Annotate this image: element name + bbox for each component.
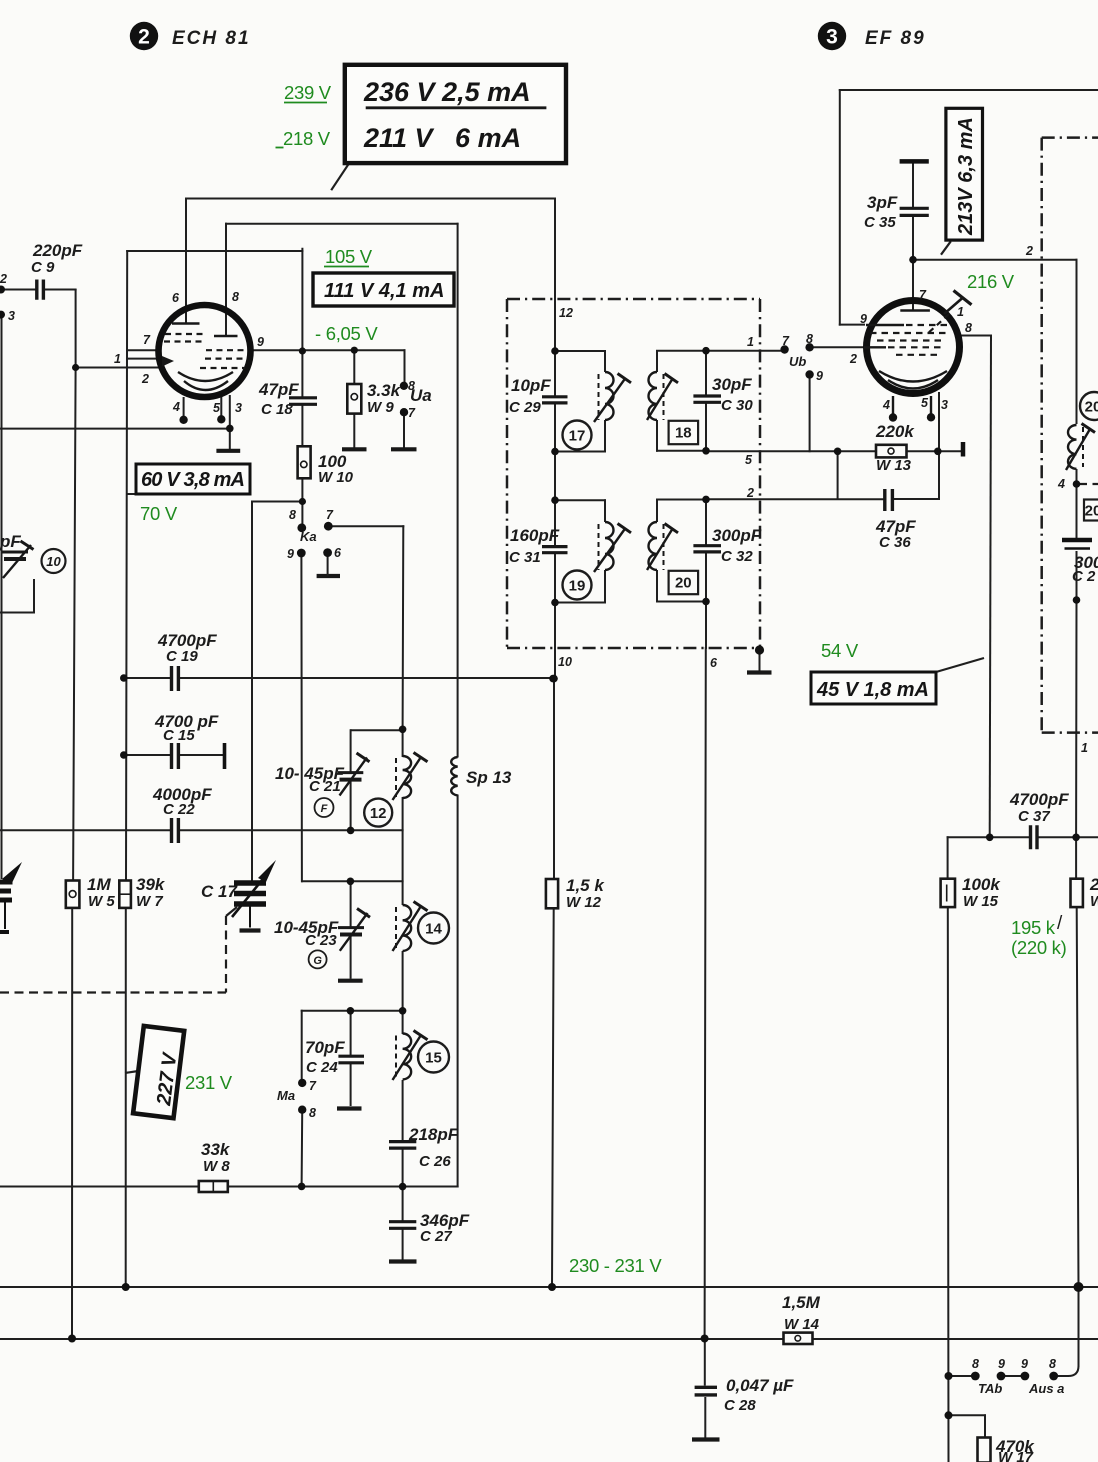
svg-text:C 18: C 18 [261,401,293,418]
svg-text:W 15: W 15 [963,893,999,910]
svg-text:W 10: W 10 [318,469,354,486]
svg-text:211 V 6 mA: 211 V 6 mA [363,123,521,153]
svg-text:5: 5 [745,453,753,467]
svg-text:0,047 µF: 0,047 µF [726,1376,794,1395]
svg-text:C 21: C 21 [309,778,341,795]
svg-text:C 19: C 19 [166,648,198,665]
svg-text:239 V: 239 V [284,82,332,103]
svg-text:70 V: 70 V [140,503,178,524]
svg-text:8: 8 [965,321,972,335]
svg-text:7: 7 [782,334,790,348]
svg-text:/: / [1057,913,1063,934]
svg-text:2: 2 [141,372,149,386]
svg-text:9: 9 [257,335,264,349]
svg-text:1M: 1M [87,875,111,894]
svg-text:C 15: C 15 [163,727,195,744]
svg-text:60 V 3,8 mA: 60 V 3,8 mA [141,469,245,491]
svg-text:236 V 2,5 mA: 236 V 2,5 mA [363,77,531,107]
svg-text:1,5M: 1,5M [782,1293,821,1312]
svg-text:20: 20 [675,575,692,592]
svg-text:220k: 220k [875,422,915,441]
svg-text:1: 1 [747,335,754,349]
svg-text:12: 12 [559,306,573,320]
svg-text:Ma: Ma [277,1088,295,1103]
svg-text:2: 2 [849,352,857,366]
svg-text:1: 1 [1081,741,1088,755]
svg-text:8: 8 [232,290,239,304]
svg-text:19: 19 [569,578,586,595]
svg-text:12: 12 [370,805,387,822]
svg-text:10: 10 [46,554,61,569]
svg-text:C 30: C 30 [721,397,753,414]
svg-text:Ka: Ka [300,529,317,544]
svg-text:14: 14 [425,921,442,938]
svg-text:Aus a: Aus a [1028,1381,1064,1396]
svg-text:1: 1 [114,352,121,366]
svg-text:20: 20 [1085,503,1098,520]
svg-text:C 24: C 24 [306,1059,338,1076]
svg-text:7: 7 [326,508,334,522]
svg-text:220pF: 220pF [32,241,83,260]
svg-text:111 V 4,1 mA: 111 V 4,1 mA [324,280,444,302]
svg-text:C 23: C 23 [305,932,337,949]
svg-text:W 13: W 13 [876,457,912,474]
svg-text:4: 4 [882,398,890,412]
svg-text:W 14: W 14 [784,1316,820,1333]
svg-text:2: 2 [1025,244,1033,258]
svg-text:pF: pF [0,532,21,551]
svg-text:4: 4 [172,400,180,414]
svg-text:15: 15 [425,1050,442,1067]
svg-text:230 - 231 V: 230 - 231 V [569,1255,662,1276]
svg-text:17: 17 [569,428,586,445]
svg-text:1,5 k: 1,5 k [566,876,605,895]
svg-text:8: 8 [289,508,296,522]
svg-text:C 36: C 36 [879,534,911,551]
svg-text:7: 7 [309,1079,317,1093]
svg-text:8: 8 [1049,1357,1056,1371]
svg-text:W 5: W 5 [88,893,115,910]
svg-text:Ub: Ub [789,354,806,369]
svg-text:7: 7 [919,288,927,302]
svg-text:300pF: 300pF [712,526,762,545]
svg-text:4: 4 [1057,477,1065,491]
svg-text:2: 2 [138,26,150,49]
svg-text:8: 8 [806,332,813,346]
svg-text:W 7: W 7 [136,893,163,910]
svg-text:C 22: C 22 [163,801,195,818]
svg-text:3: 3 [826,26,838,49]
svg-text:Sp 13: Sp 13 [466,768,512,787]
svg-text:20: 20 [1085,399,1098,416]
svg-text:9: 9 [998,1357,1005,1371]
svg-text:218pF: 218pF [408,1125,459,1144]
svg-text:C 37: C 37 [1018,808,1050,825]
svg-text:195 k: 195 k [1011,917,1056,938]
svg-text:C 17: C 17 [201,882,238,901]
svg-text:6: 6 [334,546,342,560]
svg-text:6: 6 [710,656,718,670]
svg-text:105 V: 105 V [325,246,373,267]
svg-text:216 V: 216 V [967,271,1015,292]
svg-text:8: 8 [972,1357,979,1371]
svg-text:39k: 39k [136,875,166,894]
svg-text:C 35: C 35 [864,214,896,231]
svg-text:54 V: 54 V [821,640,859,661]
svg-text:33k: 33k [201,1140,231,1159]
svg-text:7: 7 [408,406,416,420]
svg-text:100k: 100k [962,875,1001,894]
svg-text:2: 2 [746,486,754,500]
svg-text:8: 8 [309,1106,316,1120]
svg-text:2: 2 [0,272,7,286]
svg-text:W: W [1090,893,1098,910]
svg-text:9: 9 [1021,1357,1028,1371]
svg-text:W 17: W 17 [998,1449,1034,1462]
svg-text:6: 6 [172,291,180,305]
svg-text:3.3k: 3.3k [367,381,402,400]
svg-text:231 V: 231 V [185,1072,233,1093]
svg-text:W 12: W 12 [566,894,602,911]
svg-text:2: 2 [1089,875,1098,894]
svg-text:10: 10 [558,655,572,669]
svg-text:C 2: C 2 [1072,568,1096,585]
svg-text:C 28: C 28 [724,1397,756,1414]
svg-text:(220 k): (220 k) [1011,937,1067,958]
svg-text:1: 1 [957,305,964,319]
svg-text:F: F [321,803,328,815]
svg-text:C 31: C 31 [509,549,541,566]
svg-text:EF 89: EF 89 [865,28,926,49]
svg-text:8: 8 [408,379,415,393]
svg-text:- 6,05 V: - 6,05 V [315,323,378,344]
svg-text:7: 7 [143,333,151,347]
svg-text:9: 9 [287,547,294,561]
svg-text:3: 3 [941,398,948,412]
svg-text:218 V: 218 V [283,128,331,149]
svg-text:5: 5 [921,396,929,410]
svg-text:70pF: 70pF [305,1038,345,1057]
svg-text:4700pF: 4700pF [1009,790,1069,809]
svg-text:W 8: W 8 [203,1158,230,1175]
svg-text:47pF: 47pF [258,380,299,399]
svg-text:30pF: 30pF [712,375,752,394]
svg-text:C 27: C 27 [420,1228,452,1245]
svg-text:C 26: C 26 [419,1153,451,1170]
svg-text:3pF: 3pF [867,193,898,212]
svg-text:18: 18 [675,425,692,442]
svg-text:9: 9 [860,312,867,326]
svg-text:3: 3 [8,309,15,323]
svg-text:ECH 81: ECH 81 [172,28,251,49]
svg-text:160pF: 160pF [510,526,560,545]
svg-text:C 32: C 32 [721,548,753,565]
svg-text:G: G [313,955,322,967]
svg-text:W 9: W 9 [367,399,394,416]
svg-text:TAb: TAb [978,1381,1002,1396]
svg-text:5: 5 [213,401,221,415]
svg-text:3: 3 [235,401,242,415]
svg-text:10pF: 10pF [511,376,551,395]
svg-text:C 29: C 29 [509,399,541,416]
svg-text:213V 6,3 mA: 213V 6,3 mA [955,117,977,236]
svg-text:45 V 1,8 mA: 45 V 1,8 mA [816,679,929,701]
svg-text:9: 9 [816,369,823,383]
svg-text:C 9: C 9 [31,259,55,276]
